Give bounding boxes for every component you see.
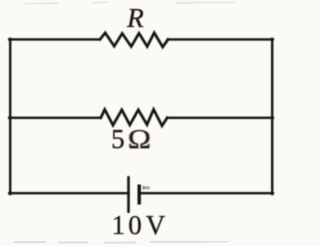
svg-text:Ω: Ω [128,125,151,155]
svg-text:R: R [126,2,144,33]
svg-text:10V: 10V [112,210,166,240]
wire middle-right segment [167,117,273,119]
battery BT1 long plate [127,177,130,211]
wire right vertical [271,39,273,194]
battery BT1 short plate [137,186,140,203]
wire middle-left segment [9,117,101,119]
wire top-right segment [168,38,273,40]
scan smudge bottom edge [14,241,228,243]
wire bottom-left segment [9,192,128,194]
svg-text:5: 5 [111,124,125,154]
battery polarity mark (faint plus) [143,186,150,190]
wire bottom-right segment [139,192,273,194]
wire left vertical [9,39,11,194]
resistor R2 (5 ohm) zigzag [101,109,167,125]
resistor R1 (R) zigzag [100,33,168,47]
wire top-left segment [9,38,100,40]
scan smudge top edge [25,2,235,4]
